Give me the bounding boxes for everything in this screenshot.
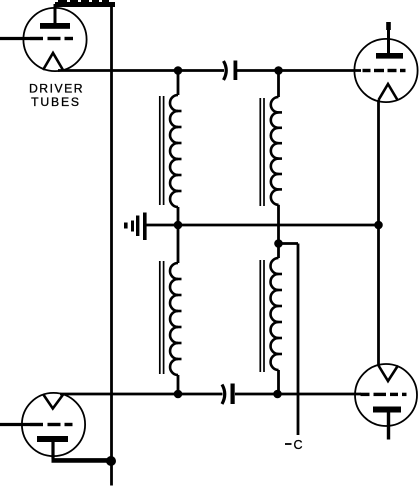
svg-text:TUBES: TUBES — [31, 95, 81, 109]
svg-text:DRIVER: DRIVER — [29, 82, 84, 96]
svg-text:C: C — [294, 438, 303, 452]
